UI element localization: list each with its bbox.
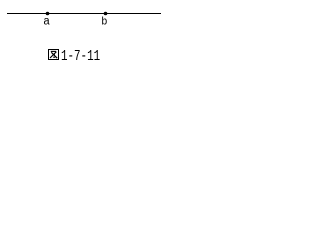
number line — [7, 13, 161, 14]
svg-text:1-7-11: 1-7-11 — [61, 48, 100, 65]
svg-text:a: a — [43, 14, 50, 29]
point b dot — [104, 12, 108, 16]
caption hanzi 图 box — [49, 50, 59, 60]
point a dot — [46, 12, 50, 16]
label b — [101, 16, 107, 28]
label a — [43, 14, 50, 29]
caption text 1-7-11 — [61, 48, 100, 65]
svg-text:b: b — [101, 16, 107, 28]
